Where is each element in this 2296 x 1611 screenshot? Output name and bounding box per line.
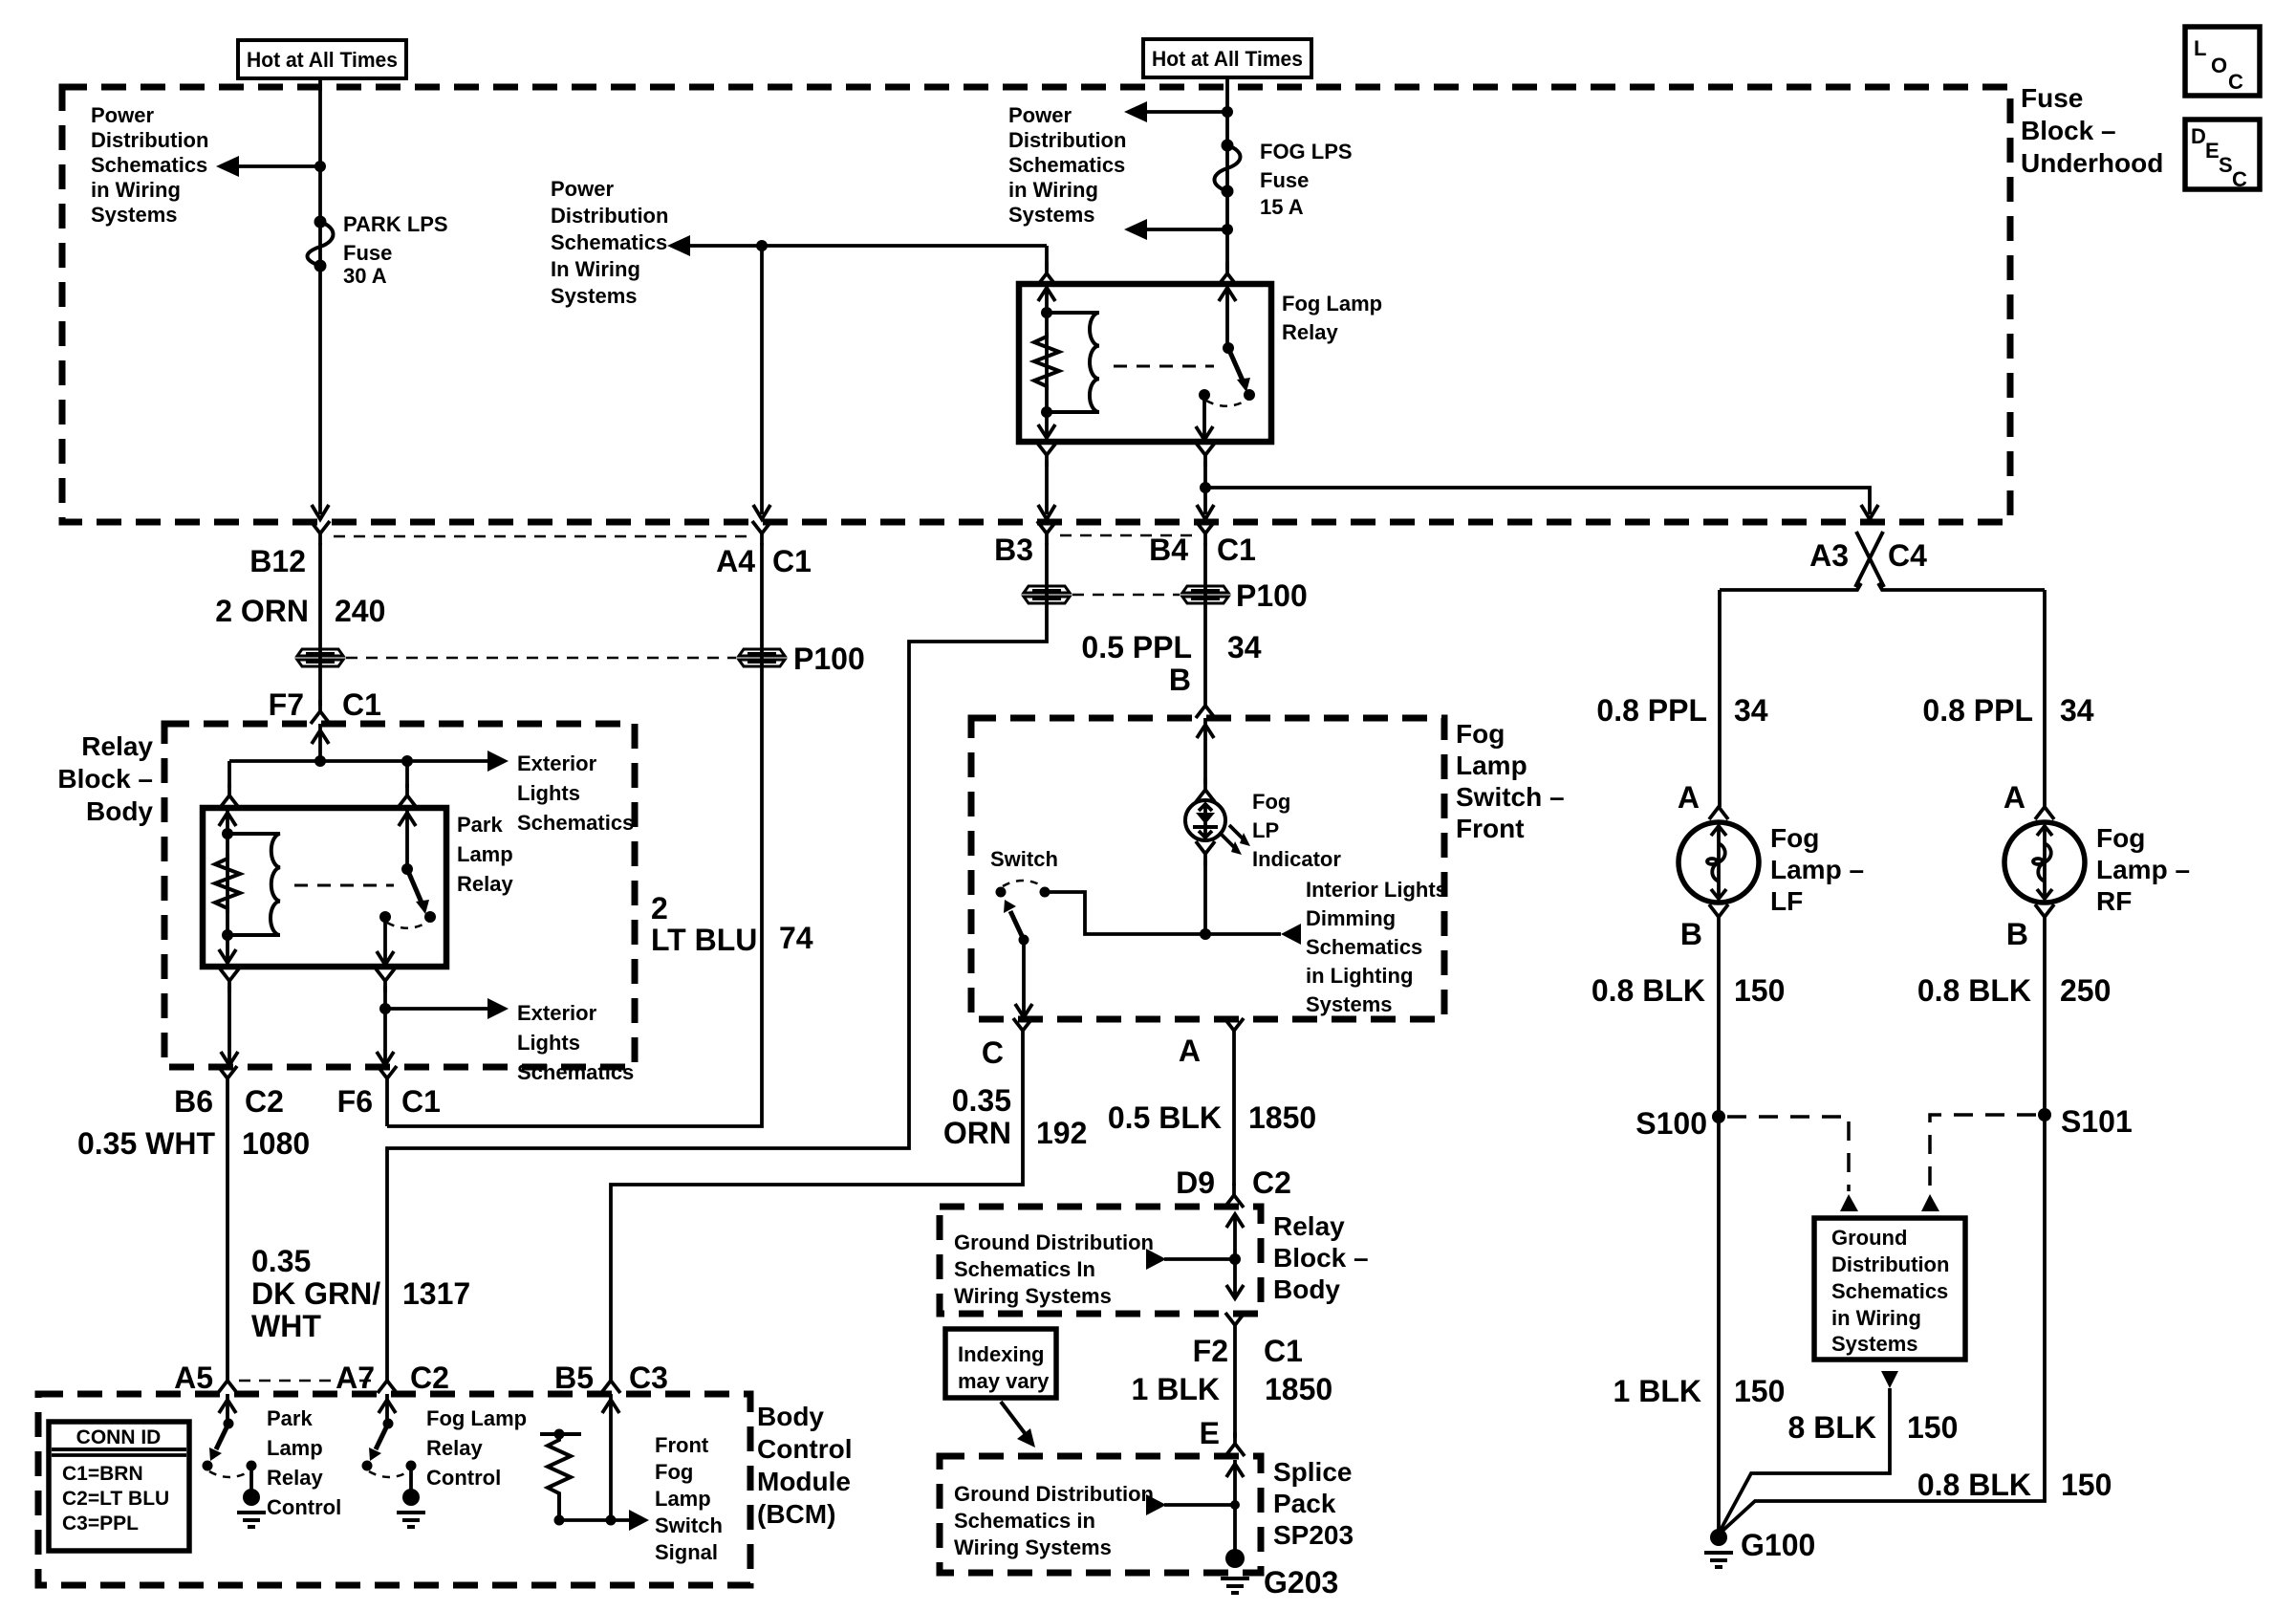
X splice A3/C4 <box>1855 532 1884 587</box>
svg-text:C: C <box>982 1035 1004 1070</box>
ground symbol (fog control) <box>397 1513 425 1527</box>
A7 entry arrow <box>385 1394 389 1424</box>
node: junction dot A4 feed <box>756 240 768 251</box>
dashed: S101 to ground dist box <box>1930 1115 2036 1191</box>
svg-text:Ground: Ground <box>1831 1226 1907 1250</box>
wire: B3 long route <box>387 543 1047 1369</box>
wire: switch output jog <box>1045 892 1281 934</box>
svg-text:Switch: Switch <box>655 1513 723 1537</box>
park relay output wire <box>383 917 387 967</box>
wire: relay coil feed horizontal with arrow <box>688 244 1047 248</box>
svg-text:S: S <box>2219 153 2233 177</box>
svg-text:Lamp: Lamp <box>267 1436 323 1460</box>
svg-text:Interior Lights: Interior Lights <box>1306 878 1447 902</box>
wire: F2 to E <box>1233 1337 1237 1438</box>
svg-text:WHT: WHT <box>251 1309 321 1343</box>
svg-text:Fog: Fog <box>1252 790 1290 814</box>
svg-text:0.35: 0.35 <box>952 1083 1011 1118</box>
svg-text:Lamp: Lamp <box>655 1487 711 1511</box>
node: switch contacts <box>379 911 391 923</box>
wire: A3/C4 split horizontals <box>1720 583 1861 590</box>
connector fork E <box>1225 1432 1245 1456</box>
connector chevron above RF lamp <box>2035 807 2054 819</box>
wire: into splice pack <box>1233 1460 1237 1551</box>
splice S101 <box>2038 1108 2051 1121</box>
svg-text:B6: B6 <box>174 1084 213 1119</box>
svg-text:Signal: Signal <box>655 1540 718 1564</box>
arrow: left feed exits fuse block bottom <box>312 505 329 519</box>
wire: left hot feed vertical <box>318 78 322 514</box>
svg-text:Fog Lamp: Fog Lamp <box>426 1406 527 1430</box>
coil (fog relay) <box>1047 313 1099 412</box>
svg-text:B: B <box>1169 663 1191 697</box>
svg-text:D: D <box>2191 124 2206 148</box>
arrow: ground distribution feed <box>1164 1257 1235 1261</box>
svg-text:Pack: Pack <box>1273 1489 1336 1518</box>
node: indicator junction dot <box>1200 928 1211 940</box>
svg-text:Indicator: Indicator <box>1252 847 1341 871</box>
svg-text:S100: S100 <box>1635 1106 1707 1141</box>
svg-text:Lamp: Lamp <box>1456 751 1527 780</box>
wire: arrow to power distribution (left) <box>237 164 320 168</box>
relay block - body dashed box <box>164 724 635 1067</box>
svg-text:C: C <box>2228 70 2243 94</box>
A5 entry arrow <box>226 1394 229 1424</box>
svg-text:C1: C1 <box>1217 533 1256 567</box>
svg-text:ORN: ORN <box>943 1116 1011 1150</box>
svg-text:Fuse: Fuse <box>343 241 392 265</box>
svg-text:LF: LF <box>1770 886 1803 916</box>
wire: B3 drop to fuse block edge <box>1045 461 1049 514</box>
svg-text:E: E <box>1200 1416 1220 1450</box>
arrow: ground distribution feed (splice) <box>1164 1503 1235 1507</box>
connector fork B3 <box>1037 521 1056 545</box>
svg-text:Fog: Fog <box>2096 823 2145 853</box>
relay block - body dashed box (ground) <box>940 1207 1261 1314</box>
wire: branch to A3/C4 <box>1205 488 1870 514</box>
svg-text:Dimming: Dimming <box>1306 906 1396 930</box>
connector chevron above LF lamp <box>1709 807 1728 819</box>
svg-text:Power: Power <box>551 177 614 201</box>
wire: left output to block edge <box>227 986 231 1063</box>
svg-text:LT BLU: LT BLU <box>651 923 757 957</box>
DESC box <box>2185 120 2260 189</box>
splice pack dashed box <box>940 1456 1261 1573</box>
svg-text:Relay: Relay <box>81 731 153 761</box>
connector fork B4 <box>1196 521 1215 545</box>
svg-text:150: 150 <box>1734 973 1785 1008</box>
svg-text:150: 150 <box>2061 1468 2112 1502</box>
svg-text:C: C <box>2232 167 2247 191</box>
svg-text:F7: F7 <box>269 687 304 722</box>
Hot at All Times box (left) <box>238 40 406 78</box>
arrow: interior lights dimming <box>1281 924 1301 945</box>
svg-text:Body: Body <box>1273 1274 1340 1304</box>
svg-text:C2=LT BLU: C2=LT BLU <box>62 1488 169 1510</box>
svg-text:C1: C1 <box>342 687 381 722</box>
node: switch pivot dot <box>1223 342 1234 354</box>
grommet P100 (B3 wire) <box>1024 586 1070 603</box>
svg-text:Distribution: Distribution <box>1008 128 1126 152</box>
svg-text:34: 34 <box>1227 630 1262 664</box>
pullup resistor (BCM) <box>540 1432 581 1436</box>
svg-text:P100: P100 <box>1236 578 1308 613</box>
svg-text:0.8 BLK: 0.8 BLK <box>1917 1468 2031 1502</box>
connector fork above indicator <box>1196 778 1215 802</box>
park lamp relay box <box>203 808 446 967</box>
svg-text:in Wiring: in Wiring <box>1008 178 1098 202</box>
svg-text:Systems: Systems <box>1008 203 1095 227</box>
svg-text:Fuse: Fuse <box>2021 83 2083 113</box>
svg-text:C3: C3 <box>629 1361 668 1395</box>
svg-text:Schematics: Schematics <box>551 230 667 254</box>
LOC box <box>2185 27 2260 96</box>
switch blade <box>1010 911 1024 940</box>
wire: to ground dot <box>249 1466 253 1491</box>
wire: right hot feed vertical <box>1225 77 1229 270</box>
node: junction dot left feed <box>314 161 326 172</box>
CONN ID box <box>49 1422 189 1551</box>
svg-text:C1: C1 <box>1264 1334 1303 1368</box>
svg-text:L: L <box>2194 36 2206 60</box>
svg-text:1317: 1317 <box>402 1276 470 1311</box>
svg-text:C1: C1 <box>772 544 812 578</box>
svg-text:Lamp: Lamp <box>457 842 513 866</box>
svg-text:0.5 PPL: 0.5 PPL <box>1081 630 1192 664</box>
svg-text:in Wiring: in Wiring <box>91 178 181 202</box>
wire: right drop to park relay <box>405 761 409 788</box>
svg-text:Relay: Relay <box>1273 1211 1345 1241</box>
svg-text:Fuse: Fuse <box>1260 168 1309 192</box>
svg-text:1850: 1850 <box>1265 1372 1332 1406</box>
wire: B12 to F7 <box>318 543 322 706</box>
svg-text:150: 150 <box>1907 1410 1958 1445</box>
svg-text:2 ORN: 2 ORN <box>215 594 309 628</box>
svg-text:Systems: Systems <box>1306 992 1393 1016</box>
park relay coil pin wire <box>226 808 229 967</box>
svg-text:0.8 BLK: 0.8 BLK <box>1917 973 2031 1008</box>
svg-text:1 BLK: 1 BLK <box>1132 1372 1220 1406</box>
connector fork A <box>1224 1018 1244 1042</box>
connector forks below park relay <box>220 969 239 992</box>
body control module dashed box <box>38 1394 750 1585</box>
switch blade (fog relay) <box>1228 348 1243 381</box>
wire: right output to block edge <box>383 986 387 1063</box>
ground symbol (park control) <box>237 1513 266 1527</box>
svg-text:Systems: Systems <box>1831 1332 1918 1356</box>
wire: LF ground drop <box>1717 917 1721 1537</box>
svg-text:Fog: Fog <box>655 1460 693 1484</box>
svg-text:192: 192 <box>1036 1116 1087 1150</box>
svg-text:Lights: Lights <box>517 781 580 805</box>
svg-text:Control: Control <box>426 1466 501 1490</box>
svg-text:0.8 PPL: 0.8 PPL <box>1922 693 2033 728</box>
wire: RF feed <box>2043 590 2047 807</box>
svg-text:Schematics: Schematics <box>517 811 634 835</box>
svg-text:Wiring Systems: Wiring Systems <box>954 1284 1112 1308</box>
svg-text:1 BLK: 1 BLK <box>1614 1374 1701 1408</box>
grommet P100 (B4 wire) <box>1182 586 1228 603</box>
svg-text:Switch –: Switch – <box>1456 782 1565 812</box>
svg-text:Front: Front <box>1456 814 1525 843</box>
wire: exterior lights branch <box>385 1007 489 1011</box>
svg-text:Distribution: Distribution <box>551 204 668 228</box>
dashed actuator link (fog relay) <box>1114 365 1214 368</box>
connector chevron below LF lamp <box>1709 904 1728 917</box>
connector fork B (switch) <box>1196 694 1215 718</box>
svg-text:DK GRN/: DK GRN/ <box>251 1276 380 1311</box>
svg-text:Exterior: Exterior <box>517 751 597 775</box>
svg-text:Relay: Relay <box>426 1436 483 1460</box>
svg-text:Fog: Fog <box>1456 719 1505 749</box>
fuse FOG LPS 15A <box>1222 140 1234 152</box>
connector fork B12 <box>311 521 330 545</box>
node: pole dot <box>1019 935 1029 946</box>
svg-text:2: 2 <box>651 891 668 925</box>
svg-text:Block –: Block – <box>1273 1243 1369 1273</box>
svg-text:Fog Lamp: Fog Lamp <box>1282 292 1382 316</box>
wire: A4 feed vertical <box>760 246 764 514</box>
connector fork A5 <box>218 1369 237 1393</box>
svg-text:F6: F6 <box>337 1084 373 1119</box>
svg-text:G100: G100 <box>1741 1528 1815 1562</box>
connector fork F7 <box>311 700 330 724</box>
node: junction dots right feed <box>1222 106 1233 118</box>
B5 entry arrow <box>609 1394 613 1520</box>
connector fork into fog relay (switch feed) <box>1218 262 1237 286</box>
svg-text:Schematics in: Schematics in <box>954 1509 1095 1533</box>
svg-text:LP: LP <box>1252 818 1279 842</box>
svg-text:A3: A3 <box>1809 538 1849 573</box>
svg-text:Distribution: Distribution <box>91 128 208 152</box>
node: pivot dot <box>401 863 413 875</box>
svg-text:Block –: Block – <box>2021 116 2116 145</box>
svg-text:(BCM): (BCM) <box>757 1499 835 1529</box>
wire: through relay block ground <box>1233 1214 1237 1298</box>
connector fork F2 <box>1225 1313 1245 1337</box>
svg-text:In Wiring: In Wiring <box>551 257 640 281</box>
svg-text:Fog: Fog <box>1770 823 1819 853</box>
svg-text:Splice: Splice <box>1273 1457 1352 1487</box>
indexing may vary box <box>945 1329 1056 1398</box>
splice S100 <box>1712 1110 1725 1123</box>
connector fork below indicator <box>1196 841 1215 865</box>
dashed: S100 to ground dist box <box>1727 1117 1849 1191</box>
svg-text:C2: C2 <box>1252 1165 1291 1200</box>
svg-text:150: 150 <box>1734 1374 1785 1408</box>
svg-text:CONN ID: CONN ID <box>76 1426 162 1448</box>
node: switch contacts <box>996 887 1007 898</box>
wire: RF ground route <box>1721 917 2045 1533</box>
splice dot G203 <box>1225 1549 1245 1568</box>
thin dashed connector line A5-A7 <box>239 1380 376 1382</box>
node: coil bottom dot <box>1041 406 1052 418</box>
svg-text:A5: A5 <box>174 1361 213 1395</box>
svg-text:240: 240 <box>335 594 385 628</box>
svg-text:Relay: Relay <box>457 872 513 896</box>
connector fork B5 <box>601 1369 620 1393</box>
svg-text:A7: A7 <box>336 1361 375 1395</box>
wire: LF feed <box>1718 590 1722 807</box>
node: ground branch dot <box>1229 1253 1241 1265</box>
grommet P100 (A4 wire) <box>739 649 785 666</box>
wire: B6 to A5 <box>226 1090 229 1369</box>
svg-text:Underhood: Underhood <box>2021 148 2163 178</box>
svg-text:B12: B12 <box>249 544 306 578</box>
connector fork into fog relay (coil) <box>1037 262 1056 286</box>
ground G100 <box>1710 1529 1727 1546</box>
svg-text:15 A: 15 A <box>1260 195 1304 219</box>
svg-text:Front: Front <box>655 1433 709 1457</box>
Hot at All Times box (right) <box>1143 39 1311 77</box>
thin dashed grommet link right <box>1072 594 1180 597</box>
dashed travel arc (park relay) <box>387 922 428 928</box>
coil (park relay) <box>227 834 280 935</box>
svg-text:34: 34 <box>1734 693 1768 728</box>
svg-text:Block –: Block – <box>57 764 153 794</box>
connector forks below fog relay <box>1037 443 1056 467</box>
fog LP indicator LED <box>1185 800 1225 840</box>
svg-text:Relay: Relay <box>1282 320 1338 344</box>
LED flash arrows <box>1221 834 1236 849</box>
fog lamp relay control switch <box>383 1419 394 1429</box>
svg-text:C2: C2 <box>245 1084 284 1119</box>
svg-text:Lamp –: Lamp – <box>2096 855 2190 884</box>
arrow below ground dist box <box>1881 1371 1898 1388</box>
svg-text:0.8 PPL: 0.8 PPL <box>1596 693 1707 728</box>
ground distribution schematics box (right) <box>1814 1218 1965 1360</box>
fog relay output wire <box>1202 395 1206 442</box>
dashed travel arc (switch) <box>1003 881 1043 886</box>
svg-text:G203: G203 <box>1264 1565 1338 1600</box>
connector fork D9 <box>1224 1184 1244 1208</box>
svg-text:in Lighting: in Lighting <box>1306 964 1413 988</box>
svg-text:Lamp –: Lamp – <box>1770 855 1864 884</box>
fuse block - underhood dashed box <box>62 87 2010 522</box>
svg-text:S101: S101 <box>2061 1104 2133 1139</box>
svg-text:Lights: Lights <box>517 1031 580 1055</box>
svg-text:Wiring Systems: Wiring Systems <box>954 1535 1112 1559</box>
svg-text:C1=BRN: C1=BRN <box>62 1463 143 1485</box>
wire: B entry into switch box <box>1203 718 1207 784</box>
svg-text:C1: C1 <box>401 1084 441 1119</box>
svg-text:P100: P100 <box>793 642 865 676</box>
svg-text:E: E <box>2205 139 2220 163</box>
svg-text:74: 74 <box>779 921 813 955</box>
wire: F7 entry into relay block <box>318 724 322 761</box>
connector fork A4 <box>752 521 771 545</box>
svg-text:0.8 BLK: 0.8 BLK <box>1592 973 1705 1008</box>
svg-text:Systems: Systems <box>91 203 178 227</box>
connector fork A7 <box>378 1369 397 1393</box>
svg-text:Body: Body <box>86 796 153 826</box>
svg-text:Body: Body <box>757 1402 824 1431</box>
node: coil dots <box>222 828 233 839</box>
svg-text:Control: Control <box>267 1495 341 1519</box>
svg-text:Schematics: Schematics <box>1831 1279 1948 1303</box>
svg-text:Control: Control <box>757 1434 853 1464</box>
wire: 8 BLK 150 to G100 <box>1720 1388 1890 1532</box>
resistor (fog relay) <box>1034 333 1059 390</box>
svg-text:Schematics: Schematics <box>1008 153 1125 177</box>
svg-text:30 A: 30 A <box>343 264 387 288</box>
svg-text:in Wiring: in Wiring <box>1831 1306 1921 1330</box>
node: exterior lights branch dot <box>379 1003 391 1014</box>
wire: B4 to switch <box>1203 543 1207 694</box>
fog relay switch feed <box>1225 284 1229 348</box>
svg-text:0.35: 0.35 <box>251 1244 311 1278</box>
svg-text:0.35 WHT: 0.35 WHT <box>77 1126 215 1161</box>
park lamp relay control switch <box>224 1419 234 1429</box>
svg-text:SP203: SP203 <box>1273 1520 1354 1550</box>
svg-text:F2: F2 <box>1193 1334 1228 1368</box>
resistor (park relay) <box>215 854 240 913</box>
connector fork C <box>1013 1018 1032 1042</box>
arrow: indexing callout <box>1001 1402 1025 1433</box>
svg-text:Hot at All Times: Hot at All Times <box>1152 47 1303 71</box>
svg-text:B: B <box>2006 917 2028 951</box>
svg-text:B3: B3 <box>994 533 1033 567</box>
svg-text:D9: D9 <box>1176 1165 1215 1200</box>
thin dashed grommet link <box>346 657 736 660</box>
svg-text:RF: RF <box>2096 886 2132 916</box>
node: splice branch dot <box>1230 1500 1240 1510</box>
svg-text:PARK LPS: PARK LPS <box>343 212 448 236</box>
svg-text:O: O <box>2211 54 2227 77</box>
svg-text:Schematics: Schematics <box>1306 935 1422 959</box>
svg-text:C2: C2 <box>410 1361 449 1395</box>
node: switch contacts <box>1199 389 1210 401</box>
svg-text:Relay: Relay <box>267 1466 323 1490</box>
svg-text:8 BLK: 8 BLK <box>1788 1410 1876 1445</box>
svg-text:Indexing: Indexing <box>958 1342 1044 1366</box>
node: B4 branch dot <box>1200 482 1211 493</box>
wire: B4 drop to fuse block edge <box>1203 461 1207 514</box>
node: bus dots <box>314 755 326 767</box>
wire: resistor to signal node <box>559 1518 629 1522</box>
svg-text:A: A <box>1678 780 1700 815</box>
svg-text:34: 34 <box>2060 693 2094 728</box>
wire: C route to B5 <box>611 1042 1023 1369</box>
fog lamp RF <box>2004 822 2085 903</box>
grommet P100 (left) <box>297 649 343 666</box>
svg-text:Hot at All Times: Hot at All Times <box>247 48 398 72</box>
fuse PARK LPS 30A <box>314 216 327 229</box>
svg-text:Ground Distribution: Ground Distribution <box>954 1482 1154 1506</box>
svg-text:A: A <box>1179 1034 1201 1068</box>
svg-text:Schematics In: Schematics In <box>954 1257 1095 1281</box>
svg-text:B4: B4 <box>1149 533 1188 567</box>
dashed travel arc (fog relay) <box>1206 400 1247 406</box>
svg-text:B5: B5 <box>554 1361 594 1395</box>
svg-text:Module: Module <box>757 1467 851 1496</box>
svg-text:Power: Power <box>1008 103 1072 127</box>
wire: to ground dot <box>409 1466 413 1491</box>
svg-text:Power: Power <box>91 103 154 127</box>
svg-text:Distribution: Distribution <box>1831 1252 1949 1276</box>
fog lamp switch dashed box <box>971 718 1444 1019</box>
ground symbol G203 <box>1221 1578 1249 1593</box>
fog lamp LF <box>1679 822 1759 903</box>
svg-text:A4: A4 <box>716 544 755 578</box>
fog lamp relay box <box>1019 284 1271 442</box>
wire: left drop to park relay <box>227 761 231 788</box>
wire: F6 up-route to A4 <box>385 1090 389 1126</box>
wire: A4 long drop <box>387 543 762 1126</box>
svg-text:Park: Park <box>267 1406 313 1430</box>
svg-text:B: B <box>1680 917 1702 951</box>
svg-text:0.5 BLK: 0.5 BLK <box>1108 1100 1222 1135</box>
